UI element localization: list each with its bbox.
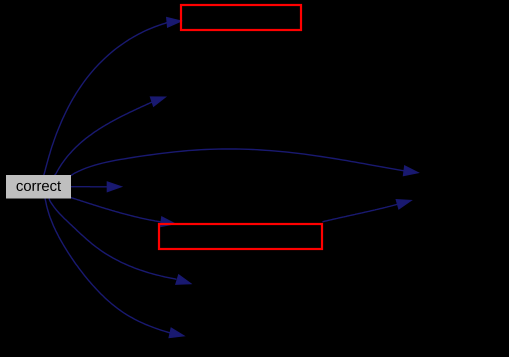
arrowhead edge correct to node3 (150, 97, 165, 107)
wire edge correct to node3 (55, 101, 153, 175)
node5 red box (lower) (159, 224, 322, 249)
arrowhead edge correct to node4 (107, 182, 122, 192)
wire edge correct to node8 (far right) (71, 149, 406, 176)
wire edge correct to node5 (lower red box) (71, 198, 162, 222)
wire edge correct to node6 (49, 199, 176, 280)
arrowhead edge correct to node7 (169, 328, 184, 338)
node correct (grey filled box) (6, 175, 71, 199)
arrowhead edge node5 to node8 (396, 200, 411, 210)
wire edge node5 to node8 (323, 204, 398, 222)
wire edge correct to node2 (top red box) (44, 22, 168, 176)
label correct (17, 181, 61, 191)
arrowhead edge correct to node6 (176, 275, 191, 285)
node2 red box (top) (181, 5, 301, 30)
wire edge correct to node4 (71, 186, 108, 188)
arrowhead edge correct to node8 (far right) (403, 166, 418, 176)
arrowhead edge correct to node5 (lower red box) (160, 217, 175, 227)
wire edge correct to node7 (45, 199, 171, 334)
arrowhead edge correct to node2 (top red box) (167, 17, 182, 27)
